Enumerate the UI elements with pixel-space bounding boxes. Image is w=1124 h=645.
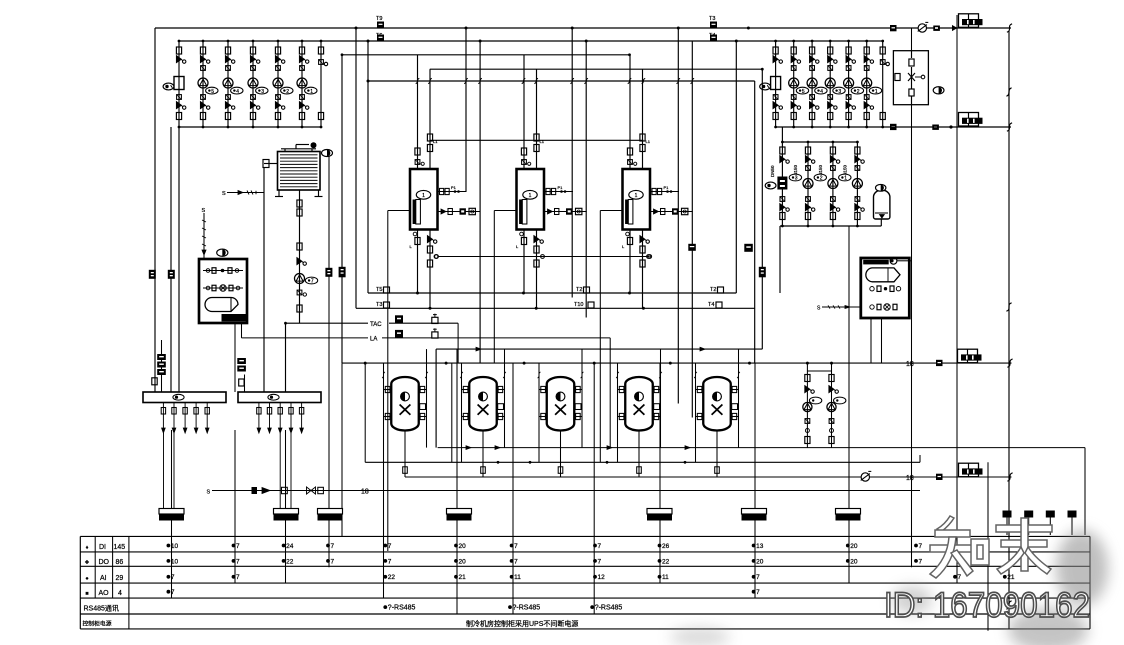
air separator vessel V5 right ports	[731, 386, 739, 419]
svg-text:20: 20	[459, 543, 467, 550]
wire drop x466	[465, 28, 467, 192]
wire lower header y447.6	[438, 446, 1085, 535]
wire chiller top link y140	[430, 139, 643, 141]
chiller unit CH3 bottom valves	[622, 232, 650, 267]
dosing unit sensor oval	[217, 249, 228, 256]
label 18 on y363	[906, 361, 914, 368]
svg-text:18: 18	[361, 489, 369, 496]
wire chilled pump bank bottom pipe y226	[780, 225, 881, 227]
secondary pump SP1	[803, 362, 822, 448]
svg-text:TAC: TAC	[370, 322, 382, 328]
svg-text:T3: T3	[376, 302, 382, 308]
svg-text:7: 7	[598, 543, 602, 550]
chiller unit CH2 evaporator pipes	[524, 230, 537, 309]
bypass valve branch left bank	[318, 40, 327, 129]
table power note	[466, 619, 578, 628]
air separator vessel V4 bypass box	[654, 404, 660, 410]
damper actuator on LA line	[395, 330, 403, 338]
svg-text:21: 21	[459, 574, 467, 581]
wire drop x480	[479, 41, 481, 363]
svg-text:7: 7	[514, 558, 518, 565]
svg-text:3: 3	[838, 89, 841, 95]
air separator vessel V2 bottom drop	[481, 431, 486, 478]
air separator vessel V1 side risers	[382, 349, 428, 462]
table AI row entries	[167, 574, 1015, 581]
wire manifold M2 drops	[280, 433, 291, 509]
tag T3 right	[708, 302, 722, 308]
valve below stack left	[152, 378, 157, 385]
terminal bar TB1	[159, 509, 184, 521]
tower pump lower sq valve	[297, 305, 302, 312]
chiller unit CH2 right sensor line upper	[544, 185, 573, 195]
tag on x762	[759, 267, 766, 278]
wire drop x572	[571, 28, 573, 298]
flanged meter on y477	[959, 463, 983, 477]
svg-text:1: 1	[844, 176, 847, 182]
svg-text:1: 1	[875, 89, 878, 95]
svg-text:7: 7	[756, 574, 760, 581]
IO summary table	[80, 536, 1090, 629]
distribution manifold M1 branch 2	[172, 403, 176, 434]
block fitting on y28	[933, 26, 940, 31]
wire drop x451.8	[451, 363, 453, 462]
wire chiller condenser return y69	[430, 68, 764, 71]
cooling water pump CP3	[248, 40, 268, 129]
svg-text:P1: P1	[664, 185, 670, 190]
air separator vessel V2 left ports	[462, 386, 470, 419]
svg-text:7: 7	[331, 558, 335, 565]
svg-text:AO: AO	[99, 590, 110, 597]
watermark shadows	[670, 530, 1108, 645]
svg-text:?-RS485: ?-RS485	[595, 605, 623, 612]
wire main header y363	[342, 362, 1012, 365]
condenser pump CWP4	[844, 40, 864, 129]
flow arrow on y28	[947, 26, 957, 30]
svg-text:7: 7	[331, 543, 335, 550]
svg-text:2: 2	[857, 89, 860, 95]
tower outlet valve 2	[297, 209, 302, 216]
wire pump suction header y41	[179, 40, 883, 43]
air separator vessel V3 right ports	[574, 386, 582, 419]
air separator vessel V1 bottom drop	[403, 431, 408, 478]
chiller unit CH2 bottom valves	[516, 232, 544, 267]
svg-text:24: 24	[286, 543, 294, 550]
svg-text:7: 7	[388, 543, 392, 550]
svg-text:7: 7	[236, 558, 240, 565]
wire vessel header y349	[436, 347, 762, 447]
svg-text:2: 2	[286, 89, 289, 95]
svg-text:3: 3	[795, 176, 798, 182]
chiller unit CH3 condenser outlet pipe	[642, 69, 644, 169]
distribution manifold M2 branch 1	[257, 403, 261, 434]
distribution manifold M1 branch 5	[205, 403, 209, 434]
filter F2 branch	[760, 40, 783, 129]
table DI row entries	[167, 543, 923, 550]
wire tower outlet jog	[284, 322, 299, 392]
heat exchanger unit box	[861, 257, 912, 318]
condenser pump CWP2	[807, 40, 827, 129]
svg-text:7: 7	[919, 558, 923, 565]
svg-text:7: 7	[171, 574, 175, 581]
tag on y363	[936, 360, 943, 366]
wire right pump bank bottom pipe y127	[776, 126, 883, 128]
wire vessel outlet header y477	[405, 476, 1012, 478]
chiller unit CH3 left sensor drop	[600, 210, 622, 212]
svg-text:LA: LA	[370, 337, 377, 343]
tag on x329	[325, 268, 332, 277]
distribution manifold M1	[143, 392, 226, 403]
wire link secondary pumps	[807, 370, 831, 372]
svg-text:S: S	[207, 490, 211, 496]
filter F3 branch	[770, 127, 789, 227]
distribution manifold M2 branch 4	[289, 403, 293, 434]
distribution manifold M2 branch 5	[299, 403, 303, 434]
damper actuator on TAC line	[395, 315, 403, 323]
tag T5 right	[710, 287, 724, 293]
air separator vessel V3 bypass box	[575, 404, 581, 410]
svg-text:20: 20	[756, 558, 764, 565]
svg-text:7: 7	[756, 589, 760, 596]
chiller unit CH1 left sensor drop	[388, 210, 410, 212]
chiller unit CH1 bottom valves	[410, 232, 438, 267]
svg-text:7: 7	[514, 543, 518, 550]
air separator vessel V4 side risers	[616, 349, 662, 462]
svg-text:1: 1	[529, 193, 532, 199]
wire drop x457 to table	[456, 349, 458, 614]
bypass valve branch right bank	[880, 40, 889, 129]
svg-text:20: 20	[850, 558, 858, 565]
air separator vessel V5 bypass box	[732, 404, 738, 410]
wire drop x736	[735, 41, 737, 293]
distribution manifold M1 branch 1	[161, 403, 165, 434]
wire drop x755 to table	[754, 363, 756, 597]
valve on TAC line	[432, 314, 438, 324]
pressure bypass valve box	[893, 51, 928, 105]
svg-text:P1: P1	[558, 185, 564, 190]
svg-text:3: 3	[261, 89, 264, 95]
air separator vessel V5 left ports	[696, 386, 704, 419]
balance valve phi on y28	[918, 22, 929, 32]
tower pump lower valve	[297, 290, 306, 296]
wire riser x1009	[1006, 31, 1011, 629]
flanged meter on y363	[958, 349, 982, 363]
watermark logo glyphs	[930, 516, 1052, 578]
tag on x171	[168, 270, 175, 279]
wire header T3 y308	[356, 307, 755, 310]
chiller unit CH3 evaporator pipes	[630, 230, 643, 309]
svg-text:■: ■	[85, 591, 88, 597]
valve tag on y127	[890, 124, 897, 130]
terminal bar TB2	[274, 509, 299, 521]
air separator vessel V3 side risers	[538, 349, 584, 462]
label on y477	[906, 475, 914, 482]
wire drop x285.5 to table	[285, 430, 287, 583]
pipe end break y28	[1007, 24, 1012, 32]
svg-text:21: 21	[1007, 574, 1015, 581]
svg-text:4: 4	[118, 590, 122, 597]
wire control line TAC y323.2	[300, 322, 459, 363]
svg-text:10: 10	[171, 558, 179, 565]
cooling water pump CP4	[273, 40, 293, 129]
svg-text:18: 18	[906, 361, 914, 368]
svg-text:制冷机房控制柜采用UPS不间断电源: 制冷机房控制柜采用UPS不间断电源	[466, 619, 578, 628]
svg-text:T2: T2	[576, 287, 582, 293]
condenser pump CWP3	[825, 40, 845, 129]
wire chiller condenser supply y55	[341, 53, 631, 56]
wire drop x692	[691, 41, 693, 418]
svg-text:20: 20	[850, 543, 858, 550]
valve below stack mid	[239, 379, 244, 386]
svg-text:T10: T10	[574, 302, 583, 308]
tag on x152	[149, 270, 156, 279]
cooling water pump CP5	[297, 40, 317, 129]
chemical dosing unit box	[199, 259, 247, 323]
chiller unit CH2 right sensor line lower	[544, 208, 587, 214]
svg-text:13: 13	[756, 543, 764, 550]
air separator vessel V2 bypass box	[498, 404, 504, 410]
terminal bar TB6	[742, 509, 767, 521]
pipe end break y363	[1007, 359, 1012, 367]
svg-text:❖: ❖	[85, 560, 90, 566]
svg-text:ID: 167090162: ID: 167090162	[884, 586, 1090, 625]
svg-text:18: 18	[906, 475, 914, 482]
sensor tag T6 on y41 header	[376, 33, 384, 41]
svg-text:控制柜电源: 控制柜电源	[83, 620, 112, 628]
wire drop x356	[355, 28, 357, 308]
wire drop x594 to table	[593, 363, 595, 614]
chiller unit CH3 top valves	[627, 134, 650, 165]
chiller unit CH2 condenser inlet pipe	[523, 55, 525, 169]
air separator vessel V4 bottom drop	[637, 431, 642, 478]
wire drop x849 to table	[848, 226, 850, 583]
terminal bar TB4	[447, 509, 472, 521]
valve tag on y28	[890, 25, 897, 31]
wire drop x179 lower	[178, 127, 180, 392]
svg-text:DI: DI	[99, 544, 106, 551]
svg-text:RS485通讯: RS485通讯	[84, 604, 119, 613]
svg-text:4: 4	[236, 89, 239, 95]
wire drop x762 with corner from y69	[761, 69, 763, 349]
svg-text:10: 10	[171, 543, 179, 550]
cooling tower CT1	[275, 142, 323, 196]
sensor oval right of box	[933, 87, 944, 94]
svg-text:5: 5	[211, 89, 214, 95]
distribution manifold M2 branch 3	[278, 403, 282, 434]
wire drop x342	[341, 55, 343, 537]
air separator vessel V3 bottom drop	[558, 431, 563, 478]
svg-text:1: 1	[635, 193, 638, 199]
distribution manifold M1 branch 3	[183, 403, 187, 434]
wire header T5 y293	[368, 292, 736, 295]
wire tower inlet drop x264	[263, 168, 265, 393]
wire drop x957 to table	[956, 15, 958, 583]
sensor tag T9 on y28 header	[376, 16, 384, 28]
svg-text:L1: L1	[646, 139, 651, 144]
table DO row entries	[167, 558, 923, 565]
wire drop x911.5 to table	[911, 28, 913, 567]
svg-text:22: 22	[286, 558, 294, 565]
chiller unit CH3 condenser inlet pipe	[629, 55, 631, 169]
chiller unit CH2 top valves	[521, 134, 544, 165]
flow switch stack mid	[237, 358, 246, 372]
svg-text:26: 26	[662, 543, 670, 550]
heat exchanger drain line	[817, 305, 861, 311]
svg-text:7: 7	[958, 574, 962, 581]
condenser pump CWP1	[789, 40, 809, 129]
svg-text:29: 29	[116, 575, 124, 582]
tower check valve	[297, 258, 307, 266]
wire manifold M1 drops to bar	[164, 433, 175, 509]
wire main supply header y28	[155, 27, 1011, 30]
junction dot y127	[883, 125, 1011, 128]
table RS485 row entries	[383, 605, 622, 612]
air separator vessel V1 right ports	[419, 386, 427, 419]
terminal squares group	[1003, 511, 1077, 536]
watermark id text	[884, 586, 1090, 625]
tag T5 mid	[576, 287, 590, 293]
tower pump TP1	[295, 274, 318, 285]
tag on x748	[744, 244, 753, 252]
wire interconnect header y81	[367, 78, 755, 83]
chiller CH2 left sensor drop x494	[493, 211, 495, 364]
chiller unit CH1 condenser outlet pipe	[429, 69, 431, 169]
svg-text:L1: L1	[433, 139, 438, 144]
wire left border x155	[154, 28, 156, 392]
distribution manifold M2	[238, 392, 321, 403]
svg-text:7: 7	[171, 589, 175, 596]
chilled water pump CHP3	[839, 141, 865, 228]
tag on y477	[936, 474, 943, 480]
filter F1 branch	[163, 40, 186, 129]
air separator vessel V5 bottom drop	[715, 431, 720, 478]
wire drop x586	[585, 41, 587, 318]
flanged meter on y127	[959, 113, 983, 127]
svg-text:AI: AI	[100, 575, 107, 582]
pipe end break y127	[1007, 123, 1012, 131]
tag on x342	[339, 267, 346, 278]
svg-text:7: 7	[236, 543, 240, 550]
svg-text:22: 22	[662, 558, 670, 565]
svg-text:7: 7	[598, 558, 602, 565]
tag T3 left	[376, 302, 390, 308]
air separator vessel V2 side risers	[460, 349, 506, 462]
terminal bar TB3	[318, 509, 343, 521]
wire drop x235 to table	[234, 430, 236, 583]
chilled water pump CHP2	[814, 141, 840, 228]
wire drops below heat exchanger	[871, 318, 882, 363]
tower outlet valve 1	[297, 200, 302, 207]
chiller CH1 left sensor drop x387.8	[387, 211, 389, 536]
chiller unit CH1 top valves	[415, 134, 438, 165]
wire lower header y462.3	[365, 363, 920, 464]
svg-text:DN50: DN50	[770, 165, 775, 177]
air separator vessel V1	[391, 377, 419, 431]
tower outlet valve 3	[297, 243, 302, 250]
svg-text:♦: ♦	[86, 545, 89, 551]
air separator vessel V5	[703, 377, 731, 431]
expansion tank	[874, 184, 890, 226]
sensor oval left of chilled bank	[765, 182, 776, 189]
tower inlet valve	[263, 160, 278, 168]
svg-text:7: 7	[919, 543, 923, 550]
svg-text:145: 145	[114, 544, 126, 551]
makeup feed line S into dosing unit	[202, 208, 207, 259]
svg-text:7: 7	[236, 574, 240, 581]
svg-text:T5: T5	[376, 287, 382, 293]
chiller unit CH3	[623, 169, 651, 230]
tag T5 left	[376, 287, 390, 293]
wire tower outlet pipe x299	[299, 190, 301, 323]
wire makeup water line y490.5	[207, 487, 921, 496]
wire drop x241.5	[242, 323, 245, 392]
chilled water pump CHP1	[789, 141, 815, 228]
svg-text:7: 7	[311, 279, 314, 285]
wire drop x368	[367, 41, 369, 293]
svg-text:L1: L1	[540, 139, 545, 144]
distribution manifold M1 branch 4	[194, 403, 198, 434]
svg-text:DO: DO	[99, 559, 110, 566]
air separator vessel V1 left ports	[384, 386, 392, 419]
wire drop x754.7	[754, 81, 756, 363]
chiller unit CH1	[410, 169, 438, 230]
cooling water pump CP2	[223, 40, 243, 129]
wire drop x329 to table	[328, 157, 330, 568]
wire drop x171.5 to table	[171, 430, 173, 598]
svg-text:?-RS485: ?-RS485	[388, 605, 416, 612]
air separator vessel V4 right ports	[653, 386, 661, 419]
valve on LA line	[432, 328, 438, 338]
air separator vessel V4	[625, 377, 653, 431]
svg-text:P1: P1	[451, 185, 457, 190]
condenser pump CWP5	[862, 40, 882, 129]
tower fan sensor oval	[322, 150, 333, 157]
wire drop x385 to table	[384, 462, 388, 597]
svg-text:T4: T4	[708, 302, 714, 308]
svg-text:22: 22	[388, 574, 396, 581]
terminal bar TB5	[647, 509, 672, 521]
tower drain line S	[222, 191, 264, 198]
chiller unit CH1 right sensor line upper	[438, 185, 467, 195]
tag T3 mid	[574, 302, 594, 308]
svg-text:T9: T9	[376, 16, 382, 22]
chiller unit CH1 right sensor line lower	[438, 208, 481, 214]
air separator vessel V4 left ports	[618, 386, 626, 419]
pipe end break y477	[1007, 473, 1012, 481]
svg-text:2: 2	[820, 176, 823, 182]
svg-text:S: S	[222, 191, 226, 197]
tag on x692	[688, 244, 696, 251]
wire chilled pump bank top pipe y142	[782, 141, 857, 143]
wire cooling pump bank bottom pipe y127	[179, 126, 321, 128]
svg-text:?-RS485: ?-RS485	[513, 605, 541, 612]
terminal bar TB7	[836, 509, 861, 521]
wire drop x678	[677, 28, 679, 404]
wire drop x513 to table	[512, 363, 514, 614]
svg-text:86: 86	[116, 559, 124, 566]
air separator vessel V3 left ports	[539, 386, 547, 419]
flanged meter on y28	[959, 14, 983, 27]
svg-text:11: 11	[662, 574, 669, 581]
sensor tag T6b on y41 header	[709, 33, 717, 41]
svg-text:T2: T2	[710, 287, 716, 293]
sensor tag T9b on y28 header	[709, 16, 717, 28]
wire chiller drain link y256.5	[435, 255, 652, 259]
air separator vessel V5 side risers	[694, 349, 740, 462]
air separator vessel V1 bypass box	[420, 404, 426, 410]
chiller unit CH2	[517, 169, 545, 230]
chiller unit CH2 left sensor drop	[494, 210, 516, 212]
balance valve phi on y477	[861, 471, 872, 481]
